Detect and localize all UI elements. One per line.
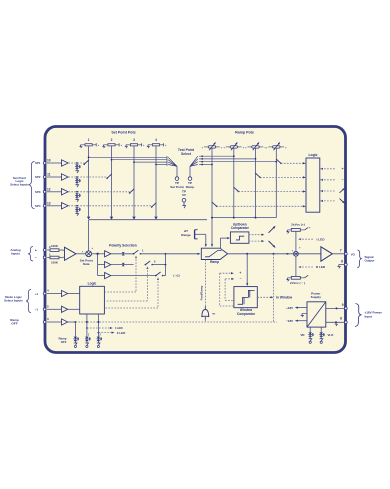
svg-text:1: 1: [88, 138, 90, 142]
svg-text:In Window: In Window: [276, 295, 292, 299]
svg-text:2xVcc (+): 2xVcc (+): [291, 222, 305, 226]
svg-text:12: 12: [47, 187, 51, 191]
svg-text:Fast/Ramp: Fast/Ramp: [200, 285, 204, 300]
svg-text:Inputs: Inputs: [11, 251, 20, 255]
svg-text:2xVcc ( − ): 2xVcc ( − ): [290, 281, 305, 285]
svg-text:Output: Output: [365, 259, 375, 263]
svg-text:+: +: [299, 246, 301, 250]
svg-text:Set Point Pots: Set Point Pots: [111, 130, 135, 134]
svg-text:Ramp Pots: Ramp Pots: [235, 130, 254, 134]
svg-text:4: 4: [155, 138, 157, 142]
svg-text:+: +: [309, 226, 311, 230]
svg-text:9: 9: [342, 303, 344, 307]
svg-text:I LED: I LED: [317, 237, 326, 241]
svg-text:SP2: SP2: [35, 175, 41, 179]
svg-text:+: +: [35, 248, 37, 252]
svg-text:−: −: [35, 256, 37, 260]
svg-text:Logic: Logic: [88, 281, 97, 285]
svg-text:+1: +1: [35, 292, 39, 296]
svg-text:+18V: +18V: [286, 306, 293, 310]
svg-text:+: +: [291, 249, 293, 253]
svg-text:+: +: [91, 246, 93, 250]
svg-text:13: 13: [47, 201, 51, 205]
svg-text:2: 2: [111, 138, 113, 142]
svg-text:−: −: [341, 178, 343, 182]
svg-text:−: −: [240, 277, 242, 281]
svg-text:100K: 100K: [51, 260, 59, 264]
svg-text:Ramp: Ramp: [186, 185, 195, 189]
svg-text:SP3: SP3: [35, 190, 41, 194]
svg-text:−18V: −18V: [286, 319, 293, 323]
svg-text:Polarity Selection: Polarity Selection: [109, 244, 137, 248]
svg-text:11: 11: [47, 173, 51, 177]
svg-text:SP4: SP4: [35, 204, 41, 208]
svg-text:Supply: Supply: [311, 295, 322, 299]
svg-text:+: +: [82, 249, 84, 253]
svg-text:Comparator: Comparator: [237, 312, 256, 316]
svg-text:8: 8: [340, 317, 342, 321]
svg-text:Z LED: Z LED: [117, 331, 126, 335]
svg-text:Set Point: Set Point: [170, 185, 183, 189]
svg-text:Input: Input: [365, 314, 373, 318]
svg-text:100K: 100K: [51, 244, 59, 248]
svg-text:3: 3: [133, 138, 135, 142]
svg-text:Select Inputs: Select Inputs: [10, 182, 29, 186]
svg-text:−1: −1: [35, 308, 39, 312]
svg-text:OFF: OFF: [61, 340, 67, 344]
svg-text:10: 10: [47, 159, 51, 163]
svg-text:7: 7: [340, 248, 342, 252]
svg-text:D LED: D LED: [316, 265, 326, 269]
svg-text:+: +: [341, 167, 343, 171]
svg-text:+: +: [239, 271, 241, 275]
svg-text:I LED: I LED: [115, 326, 124, 330]
svg-text:Select Inputs: Select Inputs: [4, 299, 23, 303]
svg-text:Comparator: Comparator: [231, 226, 250, 230]
svg-text:6: 6: [341, 259, 343, 263]
svg-text:Ramp: Ramp: [210, 260, 219, 264]
svg-text:OFF: OFF: [11, 321, 17, 325]
svg-text:Range: Range: [181, 233, 191, 237]
svg-text:Logic: Logic: [308, 153, 317, 157]
svg-text:Data: Data: [83, 262, 90, 266]
svg-text:SP1: SP1: [35, 161, 41, 165]
svg-text:VLD: VLD: [328, 333, 334, 337]
svg-text:( +1): ( +1): [173, 273, 179, 277]
svg-text:Select: Select: [181, 152, 192, 156]
